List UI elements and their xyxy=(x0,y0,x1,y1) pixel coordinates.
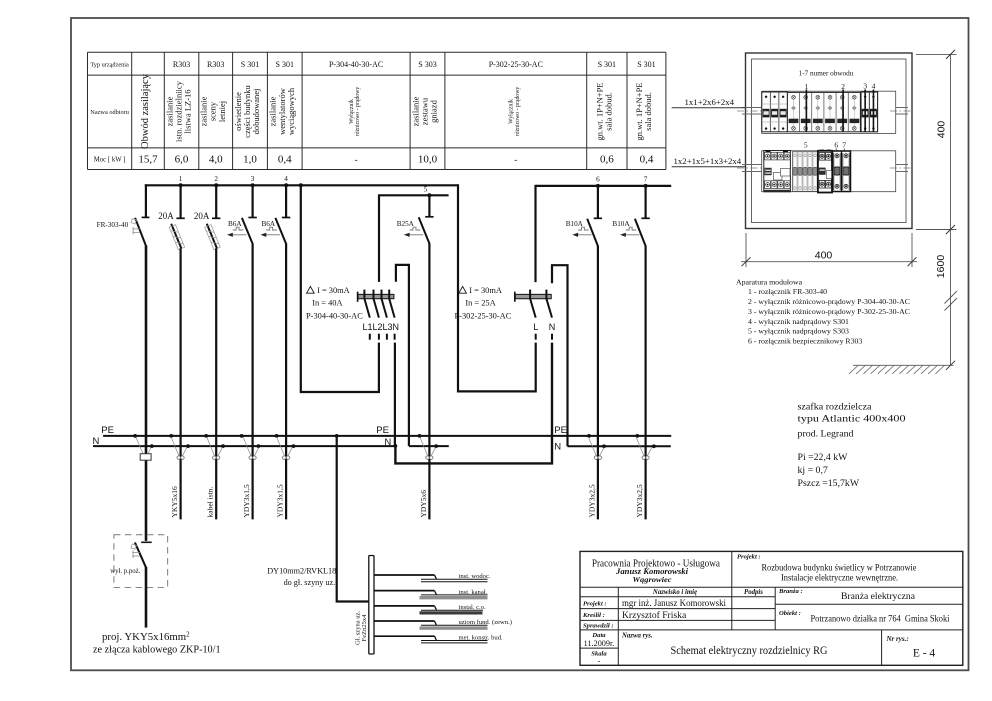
svg-text:inst. kanał.: inst. kanał. xyxy=(459,589,488,596)
title block: obiekt xyxy=(779,610,950,625)
svg-text:Rozbudowa budynku świetlicy w: Rozbudowa budynku świetlicy w Potrzanowi… xyxy=(762,563,917,573)
svg-text:6: 6 xyxy=(834,141,838,150)
disconnector FR-303-40 xyxy=(97,184,150,246)
title block: nazwa rys xyxy=(621,633,828,658)
svg-text:I = 30mA: I = 30mA xyxy=(317,286,350,295)
svg-text:kj = 0,7: kj = 0,7 xyxy=(798,465,828,476)
dimension: mounting height 1600 with break xyxy=(935,255,957,370)
svg-text:Pszcz =15,7kW: Pszcz =15,7kW xyxy=(798,478,860,489)
terminal ovals and tap ticks xyxy=(171,437,652,459)
svg-text:1-7 numer obwodu: 1-7 numer obwodu xyxy=(799,70,854,78)
title block: branza xyxy=(778,588,916,602)
svg-text:Nazwisko i imię: Nazwisko i imię xyxy=(652,589,697,596)
svg-text:YDY3x2,5: YDY3x2,5 xyxy=(587,484,596,517)
svg-text:Wągrowiec: Wągrowiec xyxy=(633,575,673,584)
title block: names header xyxy=(652,589,763,596)
wire: circuit 7 feeder drop xyxy=(644,246,646,520)
svg-text:sala dobud.: sala dobud. xyxy=(603,92,613,131)
svg-text:3 - wyłącznik różnicowo-prądow: 3 - wyłącznik różnicowo-prądowy P-302-25… xyxy=(748,307,910,316)
svg-text:L: L xyxy=(533,322,538,332)
wire: RCD1 feed from sub-bus H2 xyxy=(378,194,380,282)
wire: circuit 5 feeder drop (to YDY5x6) xyxy=(428,243,430,519)
svg-text:Wyłącznik: Wyłącznik xyxy=(349,99,355,124)
label: power summary Pi kj Pszcz xyxy=(798,452,860,489)
cabinet enclosure (szafka) outer xyxy=(746,53,913,229)
svg-text:Branża elektryczna: Branża elektryczna xyxy=(841,592,916,602)
svg-text:różnicowo - prądowy: różnicowo - prądowy xyxy=(515,87,521,137)
label: proj. YKY5x16mm2 xyxy=(102,631,190,644)
svg-text:P-302-25-30-AC: P-302-25-30-AC xyxy=(455,312,512,321)
svg-text:PE: PE xyxy=(376,425,389,436)
node label PE (left) xyxy=(101,425,114,436)
earth bond branch: central heating bond xyxy=(374,604,486,614)
svg-text:11.2009r.: 11.2009r. xyxy=(584,639,615,648)
svg-text:inst. wodoc.: inst. wodoc. xyxy=(459,573,491,580)
wire: RCD1 N-input jog xyxy=(396,265,409,446)
breaker circuit 7 (B10A S301) xyxy=(612,186,649,246)
dimension: cabinet height 400 xyxy=(916,50,957,289)
svg-text:Wyłącznik: Wyłącznik xyxy=(509,99,515,124)
earth bond branch: building steel bond xyxy=(374,634,503,643)
wire: circuit 4 feeder drop xyxy=(285,243,287,519)
svg-text:YDY5x6: YDY5x6 xyxy=(419,490,428,518)
label line: 1x2+1x5+1x3+2x4 xyxy=(672,156,746,167)
wire: circuit 6 feeder drop xyxy=(597,246,599,520)
module group: R303 fuse disconnectors (row1 left) xyxy=(762,92,788,132)
module group: S303 circuit 5 (row2 mid) xyxy=(793,152,818,192)
svg-text:20A: 20A xyxy=(194,211,210,221)
svg-text:PE: PE xyxy=(554,425,567,436)
svg-text:B10A: B10A xyxy=(612,220,630,228)
svg-text:N: N xyxy=(549,322,556,332)
svg-text:5 - wyłącznik nadprądowy S303: 5 - wyłącznik nadprądowy S303 xyxy=(748,327,849,336)
module: P-302 RCD (row2) xyxy=(818,150,832,193)
wire: incoming cable below fire switch xyxy=(145,567,148,628)
node label N (mid) xyxy=(384,437,391,448)
svg-text:S 303: S 303 xyxy=(418,60,436,69)
wire: RCD2 N-input jog to right N rail xyxy=(552,265,568,446)
module group: S301 breakers circuits 3,4 (row1 right) xyxy=(861,90,878,132)
svg-text:sala dobud.: sala dobud. xyxy=(643,92,653,131)
earth bond branch: sewer bond xyxy=(374,589,488,600)
row1 wall feedthroughs + centerline xyxy=(737,108,911,115)
label line: 1x1+2x6+2x4 xyxy=(672,97,746,108)
svg-text:B25A: B25A xyxy=(397,220,415,228)
svg-text:Projekt :: Projekt : xyxy=(737,554,761,561)
svg-text:Obiekt :: Obiekt : xyxy=(779,610,801,617)
svg-text:P-302-25-30-AC: P-302-25-30-AC xyxy=(489,60,543,69)
svg-text:N: N xyxy=(93,436,100,447)
module group: P-304 RCD and S301 (row1 mid) xyxy=(787,92,860,131)
wire: incoming main line xyxy=(145,246,148,541)
wire: N rail right (circuits 6,7) xyxy=(568,445,671,447)
svg-text:Moc [ kW ]: Moc [ kW ] xyxy=(94,157,126,164)
module: FR-303-40 (row2 left) xyxy=(764,150,791,192)
svg-text:Obwód zasilający: Obwód zasilający xyxy=(140,73,151,149)
svg-text:Nr rys.:: Nr rys.: xyxy=(886,635,909,643)
label: 1-7 numer obwodu xyxy=(799,70,854,78)
svg-text:YKY5x16: YKY5x16 xyxy=(170,486,179,517)
svg-text:uziom fund. (zewn.): uziom fund. (zewn.) xyxy=(459,619,512,626)
svg-text:Projekt :: Projekt : xyxy=(583,600,607,607)
svg-text:2 - wyłącznik różnicowo-prądow: 2 - wyłącznik różnicowo-prądowy P-304-40… xyxy=(748,297,910,306)
svg-text:B6A: B6A xyxy=(228,220,242,228)
svg-text:Sprawdził :: Sprawdził : xyxy=(583,622,614,629)
wire: circuit 1 feeder drop xyxy=(180,248,182,519)
ground hatch (floor) xyxy=(849,365,954,374)
wire: RCD2 L feed from bus H3 xyxy=(534,185,536,282)
node label N (left) xyxy=(93,436,100,447)
svg-text:20A: 20A xyxy=(158,211,174,221)
svg-text:Nazwa odbioru: Nazwa odbioru xyxy=(90,109,129,116)
node labels: circuit numbers 1-7 xyxy=(179,175,648,194)
svg-text:10,0: 10,0 xyxy=(418,154,438,166)
cabinet enclosure inner xyxy=(752,59,907,223)
svg-text:do gł. szyny uz.: do gł. szyny uz. xyxy=(284,578,336,587)
DIN rail row 1 band xyxy=(762,91,896,133)
svg-text:Branża :: Branża : xyxy=(778,588,803,595)
module group: S301 breakers circuits 6,7 (row2) xyxy=(833,151,851,192)
svg-text:1,0: 1,0 xyxy=(243,154,257,166)
RCD U1: P-304-40-30-AC 4-pole xyxy=(306,286,399,340)
svg-text:1: 1 xyxy=(179,175,183,183)
breaker circuit 4 (B6A S301) xyxy=(261,185,291,244)
svg-text:S 301: S 301 xyxy=(276,60,294,69)
wire: PE bus xyxy=(103,435,671,437)
leader lines circuits 1,2 xyxy=(806,90,843,132)
svg-text:S 301: S 301 xyxy=(637,60,655,69)
node label PE (right) xyxy=(554,425,567,436)
svg-text:4,0: 4,0 xyxy=(209,154,223,166)
svg-text:2: 2 xyxy=(841,82,845,91)
svg-text:Schemat elektryczny rozdzielni: Schemat elektryczny rozdzielnicy RG xyxy=(671,643,828,657)
label: ze zlacza kablowego xyxy=(93,644,221,655)
labels: module numbers 5 6 7 xyxy=(804,141,847,150)
breaker circuit 6 (B10A S301) xyxy=(566,186,602,246)
svg-text:proj. YKY5x16mm2: proj. YKY5x16mm2 xyxy=(102,631,190,644)
svg-text:FeZn25x4: FeZn25x4 xyxy=(361,614,368,641)
svg-text:FR-303-40: FR-303-40 xyxy=(97,221,129,229)
svg-text:Instalacje elektryczne wewnętr: Instalacje elektryczne wewnętrzne. xyxy=(781,573,898,583)
title block: kreslil row xyxy=(582,610,687,621)
svg-text:instal. c.o.: instal. c.o. xyxy=(459,604,486,611)
node: N tap dots xyxy=(150,444,656,448)
svg-text:0,6: 0,6 xyxy=(600,154,614,166)
svg-text:2: 2 xyxy=(214,175,218,183)
svg-text:1x1+2x6+2x4: 1x1+2x6+2x4 xyxy=(685,97,735,107)
earth bond branch: water pipe bond xyxy=(374,573,491,582)
svg-text:szafka rozdzielcza: szafka rozdzielcza xyxy=(798,402,873,413)
svg-text:5: 5 xyxy=(424,186,428,194)
svg-text:3: 3 xyxy=(251,175,255,183)
svg-text:S 301: S 301 xyxy=(598,60,616,69)
svg-text:Typ urządzenia: Typ urządzenia xyxy=(90,62,129,69)
earth bond branch: foundation earth electrode xyxy=(374,619,512,630)
svg-text:YDY3x2,5: YDY3x2,5 xyxy=(635,484,644,517)
svg-text:letniej: letniej xyxy=(217,101,227,122)
main earthing busbar Gl. szyna uz. FeZn25x4 xyxy=(354,556,374,655)
title block: projektant row xyxy=(583,598,726,609)
svg-text:N: N xyxy=(384,437,391,448)
svg-text:B10A: B10A xyxy=(566,220,584,228)
dimension: cabinet width 400 xyxy=(741,233,917,267)
svg-text:5: 5 xyxy=(804,141,808,150)
table row: moc kW xyxy=(94,154,654,166)
svg-text:DY10mm2/RVKL18: DY10mm2/RVKL18 xyxy=(267,567,336,576)
wire: bus H3 (circuits 6,7) xyxy=(536,185,672,187)
svg-text:Nazwa rys.: Nazwa rys. xyxy=(621,633,653,640)
svg-text:1x2+1x5+1x3+2x4: 1x2+1x5+1x3+2x4 xyxy=(674,156,742,166)
wire: circuit 3 feeder drop xyxy=(252,243,254,519)
RCD U2: P-302-25-30-AC 2-pole xyxy=(455,286,556,340)
fire switch wyl. p.poz. (dashed box) xyxy=(110,535,167,588)
load table grid xyxy=(88,52,666,169)
svg-text:PE: PE xyxy=(101,425,114,436)
svg-text:N: N xyxy=(554,441,561,452)
svg-text:P-304-40-30-AC: P-304-40-30-AC xyxy=(329,60,383,69)
svg-text:kabel istn.: kabel istn. xyxy=(206,487,215,518)
table row: typ urzadzenia xyxy=(90,60,655,69)
title block: company xyxy=(592,558,720,585)
svg-text:7: 7 xyxy=(842,141,846,150)
node label N (right) xyxy=(554,441,561,452)
title block: projekt cell xyxy=(737,554,917,583)
svg-text:-: - xyxy=(514,155,517,165)
svg-text:1 - rozłącznik FR-303-40: 1 - rozłącznik FR-303-40 xyxy=(748,287,827,296)
svg-text:wyciągowych: wyciągowych xyxy=(286,87,296,135)
svg-text:1600: 1600 xyxy=(935,255,947,279)
labels: module numbers 1 2 3 4 xyxy=(805,82,876,91)
svg-text:Krzysztof Friska: Krzysztof Friska xyxy=(622,610,687,621)
svg-text:0,4: 0,4 xyxy=(278,154,292,166)
svg-text:R303: R303 xyxy=(207,60,224,69)
wire: main bus right end loop to RCD2 L output xyxy=(458,184,536,391)
svg-text:YDY3x1,5: YDY3x1,5 xyxy=(276,484,285,517)
wire: RCD2 N output + lower N rail xyxy=(395,343,552,464)
terminal box on incoming main line xyxy=(136,438,151,461)
svg-text:-: - xyxy=(355,155,358,165)
wire: sub-bus H2 (circuit 5) xyxy=(379,194,449,196)
svg-text:R303: R303 xyxy=(173,60,190,69)
title block: sprawdzil row xyxy=(583,622,614,629)
svg-text:7: 7 xyxy=(644,176,648,184)
svg-text:YDY3x1,5: YDY3x1,5 xyxy=(242,484,251,517)
breaker circuit 3 (B6A S301) xyxy=(227,185,257,244)
svg-text:typu Atlantic 400x400: typu Atlantic 400x400 xyxy=(798,413,906,424)
list: Aparatura modulowa xyxy=(736,278,910,346)
title block grid xyxy=(580,551,963,665)
svg-text:dobudowanej: dobudowanej xyxy=(251,89,261,135)
svg-text:4: 4 xyxy=(872,82,876,91)
fuse disconnector circuit 1 (20A R303) xyxy=(158,185,185,249)
svg-text:6,0: 6,0 xyxy=(175,154,189,166)
svg-text:0,4: 0,4 xyxy=(640,154,654,166)
svg-text:Podpis: Podpis xyxy=(744,589,763,596)
svg-text:-: - xyxy=(598,657,601,666)
node: bus junction dots xyxy=(179,183,648,197)
svg-text:E - 4: E - 4 xyxy=(913,648,936,660)
DIN rail row 2 band xyxy=(762,151,896,192)
row2 wall feedthroughs + centerline xyxy=(737,165,911,172)
svg-text:400: 400 xyxy=(815,250,833,262)
title block: data/skala xyxy=(584,632,615,666)
node label PE (mid) xyxy=(376,425,389,436)
wire: N stub rail (circuit 5) xyxy=(409,445,449,447)
fuse disconnector circuit 2 (20A R303) xyxy=(194,185,221,249)
wire: main bus H1 xyxy=(145,184,458,186)
svg-text:400: 400 xyxy=(935,121,947,139)
svg-text:listwa LZ-16: listwa LZ-16 xyxy=(183,89,193,133)
svg-text:1: 1 xyxy=(805,82,809,91)
wire: RCD1 N output to N bus xyxy=(394,343,396,446)
title block: nr rys E-4 xyxy=(886,635,936,660)
svg-text:ze złącza kablowego ZKP-10/1: ze złącza kablowego ZKP-10/1 xyxy=(93,644,221,655)
breaker circuit 5 (B25A S303) xyxy=(397,195,434,243)
svg-text:S 301: S 301 xyxy=(241,60,259,69)
svg-text:Aparatura modułowa: Aparatura modułowa xyxy=(736,278,803,287)
wire: N bus left segment xyxy=(93,445,395,447)
table row: nazwa odbioru (rotated) xyxy=(90,73,653,149)
wire: earthing conductor DY10 to main earth bar xyxy=(337,436,369,602)
svg-text:4: 4 xyxy=(284,175,288,183)
svg-text:B6A: B6A xyxy=(262,220,276,228)
svg-text:3: 3 xyxy=(863,82,867,91)
svg-text:Potrzanowo działka nr 764 Gmi: Potrzanowo działka nr 764 Gmina Skoki xyxy=(811,615,950,625)
svg-text:różnicowo - prądowy: różnicowo - prądowy xyxy=(355,87,361,137)
svg-text:Pi =22,4 kW: Pi =22,4 kW xyxy=(798,452,849,463)
svg-text:I = 30mA: I = 30mA xyxy=(469,286,502,295)
svg-text:6: 6 xyxy=(596,176,600,184)
svg-text:mgr inż. Janusz Komorowski: mgr inż. Janusz Komorowski xyxy=(622,598,726,609)
svg-text:In = 25A: In = 25A xyxy=(465,299,495,308)
wire: RCD1 L2 output loop to main bus xyxy=(301,184,379,392)
svg-text:In = 40A: In = 40A xyxy=(312,299,342,308)
svg-text:wył. p.poż.: wył. p.poż. xyxy=(110,568,141,575)
label: szafka rozdzielcza block xyxy=(798,402,906,440)
svg-text:prod. Legrand: prod. Legrand xyxy=(798,428,854,439)
svg-text:gniazd: gniazd xyxy=(429,99,439,122)
svg-text:met. konstr. bud.: met. konstr. bud. xyxy=(459,634,503,641)
cable labels xyxy=(170,484,644,517)
wire: circuit 2 feeder drop xyxy=(215,248,217,519)
svg-text:Kreślił :: Kreślił : xyxy=(582,612,605,619)
svg-text:6 - rozłącznik bezpiecznikowy: 6 - rozłącznik bezpiecznikowy R303 xyxy=(748,336,862,345)
node: PE tap dots xyxy=(133,434,639,438)
svg-text:P-304-40-30-AC: P-304-40-30-AC xyxy=(306,312,363,321)
label DY10mm2/RVKL18 xyxy=(267,567,336,587)
svg-text:15,7: 15,7 xyxy=(138,154,158,166)
svg-text:4 - wyłącznik nadprądowy S301: 4 - wyłącznik nadprądowy S301 xyxy=(748,317,849,326)
svg-text:L1L2L3N: L1L2L3N xyxy=(363,322,400,332)
